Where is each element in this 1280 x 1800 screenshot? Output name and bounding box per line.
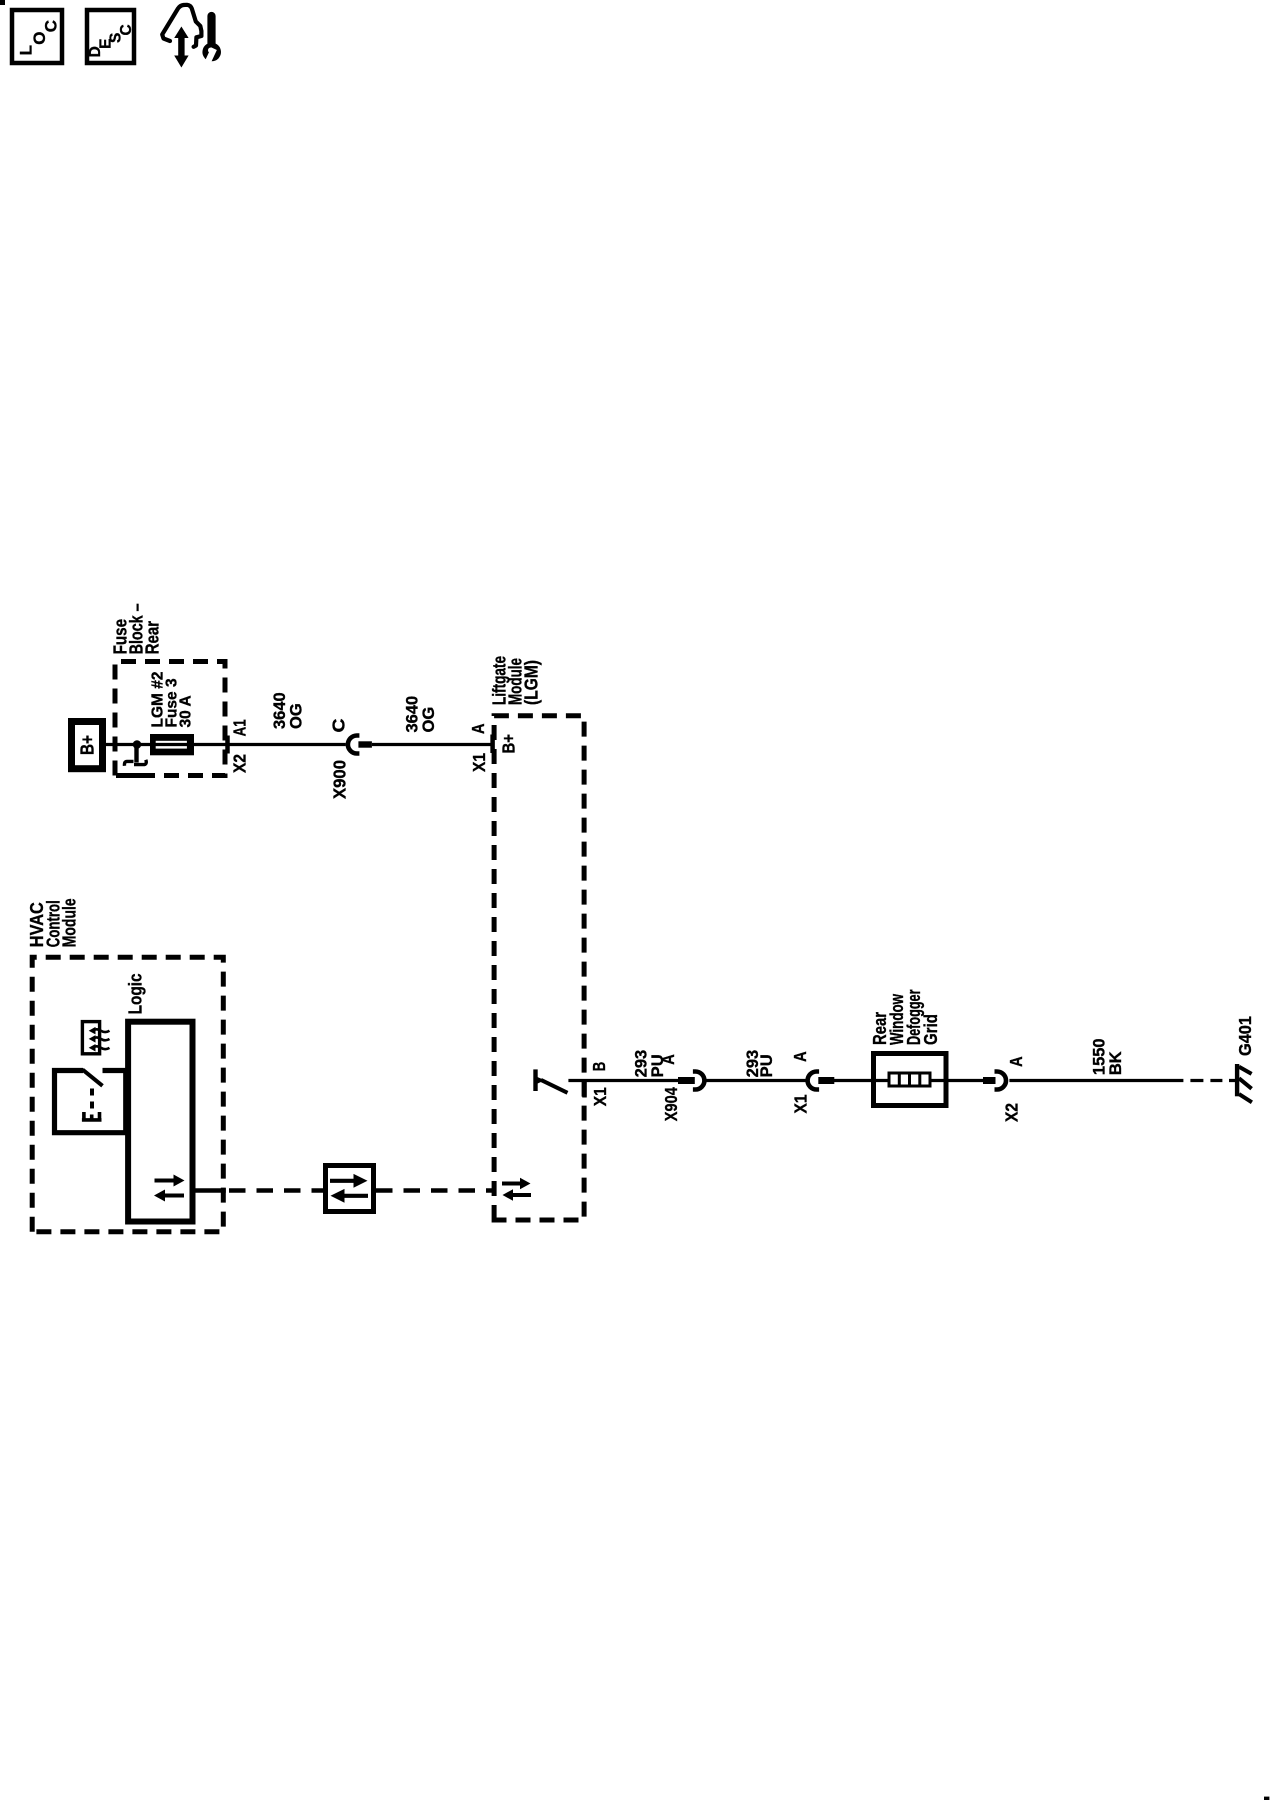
pin label A at grid X1 (790, 1051, 810, 1062)
defogger indicator (heated grid icon) (82, 1022, 109, 1054)
svg-text:X1: X1 (590, 1087, 610, 1106)
connector label X1 (liftgate output) (590, 1087, 610, 1106)
LOC button text (17, 20, 61, 55)
ground name G401 (1235, 1016, 1255, 1056)
connector label X2 (230, 754, 250, 773)
wire label 3640 OG (liftgate side) (404, 696, 439, 733)
wire 293 PU X904 to defogger grid (706, 1079, 806, 1082)
page corner tick mark (0, 0, 5, 5)
wire grid to X2 (930, 1079, 983, 1082)
svg-text:A1: A1 (230, 719, 250, 736)
wire 293 PU liftgate to X904 (593, 1079, 679, 1082)
svg-text:A: A (1006, 1056, 1026, 1067)
svg-text:A: A (658, 1054, 678, 1065)
svg-text:(LGM): (LGM) (522, 660, 542, 705)
LOC button box (12, 10, 62, 63)
fuse block bus squiggle (124, 745, 146, 766)
Rear Window Defogger Grid label (870, 990, 941, 1046)
svg-text:O: O (30, 31, 49, 44)
Rear Window Defogger Grid box (874, 1054, 947, 1106)
wire 3640 OG X900 to liftgate module (372, 743, 492, 746)
fuse LGM #2 Fuse 3 30A cartridge symbol (150, 737, 195, 753)
svg-text:L: L (17, 45, 36, 55)
serial data dashed link HVAC to pass-through (229, 1188, 326, 1192)
HVAC logic block (128, 1022, 192, 1222)
wire label 1550 BK (1091, 1038, 1126, 1075)
svg-text:OG: OG (420, 707, 438, 733)
HVAC Control Module dashed outline (32, 957, 223, 1231)
fuse block border dash at B+ entry (129, 773, 145, 778)
defogger switch box (open edge at blade) (55, 1071, 126, 1133)
DESC button box (87, 10, 134, 63)
wire fuse to X2 terminal (195, 743, 232, 746)
svg-text:B+: B+ (78, 735, 98, 755)
serial data stub from logic block (196, 1188, 226, 1192)
Fuse Block - Rear label (111, 603, 163, 654)
B+ pin label inside liftgate module (499, 734, 519, 754)
svg-text:3640: 3640 (404, 696, 422, 733)
wire X1 into defogger grid (834, 1079, 891, 1082)
terminal tick X2/A1 at fuse block edge (225, 736, 230, 754)
liftgate switch arrowhead (537, 1077, 545, 1084)
in-line connector X904 (male terminal + female half) (678, 1072, 704, 1090)
svg-text:293: 293 (633, 1050, 651, 1078)
pin label A (468, 723, 488, 734)
svg-text:OG: OG (288, 703, 306, 729)
vehicle raise/lower service icon (drawn in page coords) (162, 5, 221, 68)
svg-text:G401: G401 (1235, 1016, 1255, 1056)
switch fixed contact bracket (82, 1112, 102, 1121)
svg-text:30 A: 30 A (178, 695, 195, 727)
svg-text:X1: X1 (469, 753, 489, 772)
svg-text:X2: X2 (1002, 1103, 1022, 1122)
connector label X1 (liftgate feed) (469, 753, 489, 772)
wire 1550 BK X2 to G401 (dashed far end) (1009, 1079, 1235, 1082)
pin label A at X904 (658, 1054, 678, 1065)
serial data arrows in logic block (154, 1175, 185, 1202)
svg-text:3640: 3640 (271, 692, 289, 729)
svg-text:X904: X904 (661, 1087, 681, 1121)
wire label 293 PU (grid side) (744, 1050, 776, 1078)
svg-text:B+: B+ (499, 734, 519, 754)
pin label B (589, 1062, 609, 1072)
pin label A at X2 (1006, 1056, 1026, 1067)
serial data dashed link pass-through to liftgate (376, 1188, 494, 1192)
HVAC switch blade (83, 1070, 103, 1086)
svg-text:A: A (790, 1051, 810, 1062)
connector name X2 (1002, 1103, 1022, 1122)
svg-text:B: B (589, 1062, 609, 1072)
wire B+ feed into fuse block (106, 743, 150, 746)
Liftgate Module (LGM) dashed outline (494, 716, 584, 1220)
connector name X1 (grid) (791, 1094, 811, 1113)
serial data arrows in pass-through box (330, 1174, 368, 1203)
fuse value label LGM #2 Fuse 3 30 A (150, 672, 195, 728)
svg-text:Rear: Rear (143, 621, 163, 655)
serial data pass-through box (326, 1166, 374, 1212)
pin label C (329, 718, 349, 732)
svg-text:X2: X2 (230, 754, 250, 773)
svg-text:C: C (118, 24, 135, 35)
liftgate defogger switch contact bar (533, 1069, 537, 1091)
serial data arrows in liftgate module (502, 1178, 531, 1201)
wire switch to module edge (568, 1079, 593, 1082)
svg-text:A: A (468, 723, 488, 734)
Logic label (125, 973, 145, 1014)
switch linkage dashes (90, 1089, 94, 1109)
svg-text:Logic: Logic (125, 973, 145, 1014)
Liftgate Module (LGM) label (490, 656, 542, 705)
svg-text:Grid: Grid (921, 1014, 941, 1045)
grid connector X1 (female half + male terminal) (808, 1072, 835, 1090)
svg-text:X1: X1 (791, 1094, 811, 1113)
svg-text:X900: X900 (330, 760, 350, 799)
connector name X900 (330, 760, 350, 799)
svg-text:PU: PU (758, 1054, 776, 1077)
wire label 3640 OG (fuse side) (271, 692, 306, 729)
B+ battery feed box (72, 722, 103, 769)
svg-text:C: C (329, 718, 349, 732)
in-line connector X900 (female half + male terminal) (348, 736, 372, 754)
defogger grid heating element (889, 1073, 930, 1086)
svg-text:BK: BK (1107, 1051, 1125, 1075)
pin label A1 (230, 719, 250, 736)
HVAC Control Module label (27, 898, 80, 947)
svg-text:Module: Module (60, 898, 80, 947)
liftgate switch blade (541, 1080, 568, 1093)
DESC button text (87, 24, 135, 57)
Fuse Block - Rear dashed outline (115, 662, 225, 776)
connector name X904 (661, 1087, 681, 1121)
B+ feed label (78, 735, 98, 755)
ground symbol G401 (1237, 1064, 1252, 1102)
terminal tick at liftgate switch output (582, 1081, 587, 1098)
svg-text:1550: 1550 (1091, 1038, 1109, 1075)
svg-text:C: C (42, 20, 61, 32)
wire label 293 PU (liftgate side) (633, 1050, 668, 1078)
junction node on B+ bus (133, 740, 142, 749)
terminal tick at liftgate module edge (490, 735, 495, 754)
ground connector X2 (male terminal + female half) (983, 1072, 1006, 1090)
page bottom-right mark (1264, 1797, 1269, 1800)
wire 3640 OG fuse block to X900 (232, 743, 346, 746)
